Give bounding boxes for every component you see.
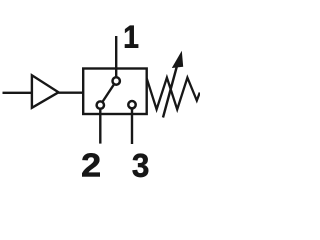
contact circle bottom-left	[97, 101, 104, 108]
valve body box	[83, 69, 147, 115]
contact circle bottom-right	[128, 101, 135, 108]
wire apex to valve body	[59, 92, 85, 94]
label 1	[125, 26, 138, 48]
port 3 stem	[131, 105, 133, 144]
adjustment arrow shaft	[163, 64, 178, 118]
port 1 stem	[115, 36, 117, 81]
port 2 stem	[99, 105, 101, 144]
contact circle top	[113, 77, 120, 84]
amplifier triangle	[32, 75, 59, 108]
label 3	[133, 154, 149, 177]
label 2	[82, 153, 99, 176]
adjustment arrow head	[172, 51, 183, 68]
wire input line left	[3, 92, 32, 94]
spring	[147, 78, 200, 110]
contact line	[100, 81, 116, 105]
